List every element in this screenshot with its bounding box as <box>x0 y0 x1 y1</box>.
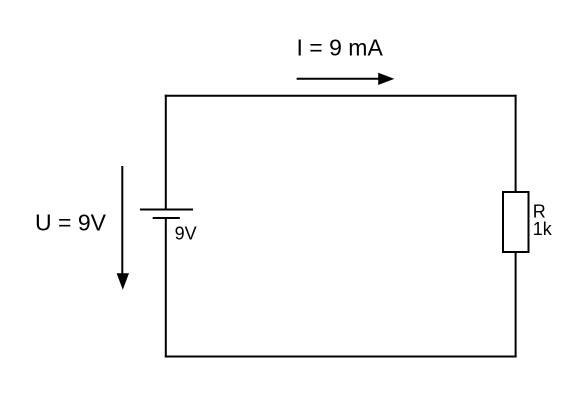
svg-text:9V: 9V <box>175 224 197 244</box>
wire bottom rail <box>165 356 517 358</box>
svg-text:I = 9 mA: I = 9 mA <box>297 35 384 61</box>
voltage arrow <box>117 166 129 290</box>
resistor value label 1k <box>533 219 553 239</box>
resistor label R <box>533 201 546 221</box>
wire right top segment <box>515 95 517 193</box>
label U = 9V <box>35 210 107 236</box>
wire top rail <box>165 95 517 97</box>
label I = 9 mA <box>297 35 384 61</box>
svg-text:1k: 1k <box>533 219 553 239</box>
wire left top segment <box>165 95 167 210</box>
current arrow <box>297 73 395 85</box>
wire right bottom segment <box>515 251 517 358</box>
wire left bottom segment <box>165 218 167 358</box>
svg-text:U = 9V: U = 9V <box>35 210 107 236</box>
battery value label 9V <box>175 224 197 244</box>
battery <box>140 210 193 219</box>
resistor R <box>503 192 529 252</box>
